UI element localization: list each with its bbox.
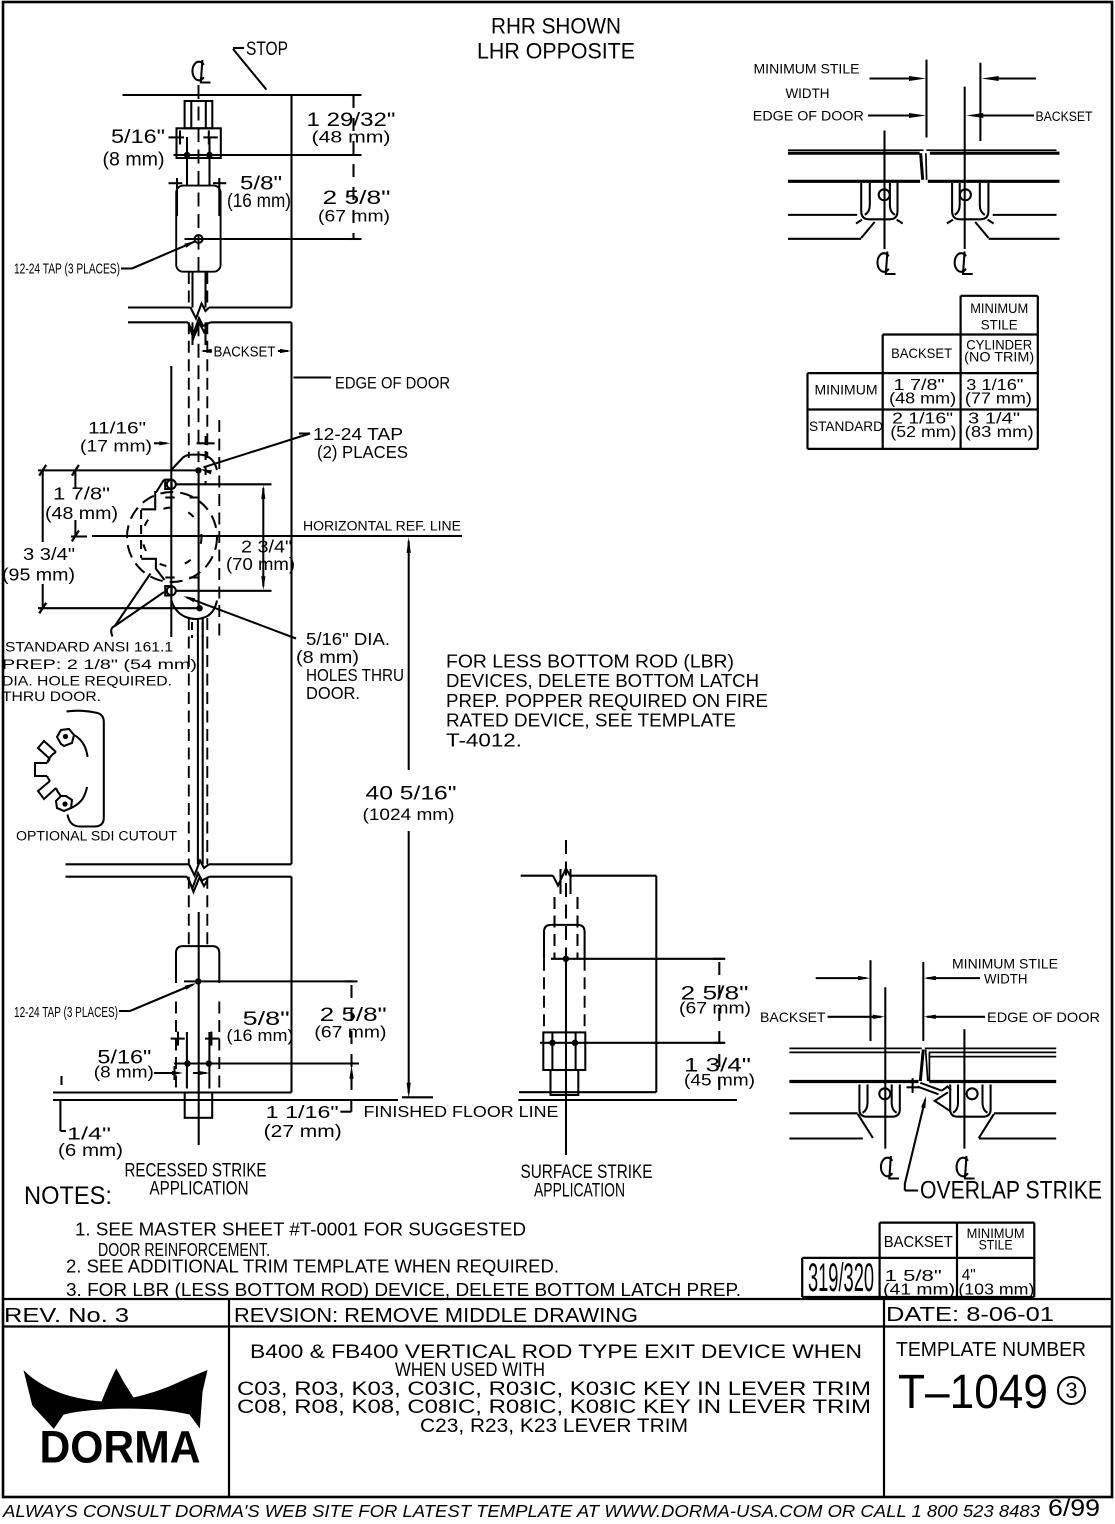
svg-text:OVERLAP STRIKE: OVERLAP STRIKE xyxy=(920,1177,1102,1205)
svg-text:(2) PLACES: (2) PLACES xyxy=(317,442,408,462)
svg-text:(48 mm): (48 mm) xyxy=(312,128,391,147)
svg-text:3: 3 xyxy=(1065,1378,1077,1403)
svg-text:(8 mm): (8 mm) xyxy=(94,1063,154,1082)
svg-text:MINIMUM STILE: MINIMUM STILE xyxy=(754,62,860,77)
svg-text:DOOR.: DOOR. xyxy=(306,683,360,703)
svg-text:12-24 TAP: 12-24 TAP xyxy=(313,424,403,444)
svg-text:DIA. HOLE REQUIRED.: DIA. HOLE REQUIRED. xyxy=(2,673,172,689)
svg-text:DATE: 8-06-01: DATE: 8-06-01 xyxy=(886,1304,1054,1326)
svg-text:OPTIONAL SDI CUTOUT: OPTIONAL SDI CUTOUT xyxy=(16,829,177,844)
svg-text:BACKSET: BACKSET xyxy=(884,1234,953,1251)
svg-text:C23, R23, K23 LEVER TRIM: C23, R23, K23 LEVER TRIM xyxy=(420,1416,688,1437)
svg-text:HOLES THRU: HOLES THRU xyxy=(306,665,404,685)
svg-text:(103 mm): (103 mm) xyxy=(958,1282,1034,1299)
svg-text:RATED DEVICE, SEE TEMPLATE: RATED DEVICE, SEE TEMPLATE xyxy=(446,710,736,731)
svg-text:REV. No. 3: REV. No. 3 xyxy=(4,1305,129,1327)
svg-text:WIDTH: WIDTH xyxy=(984,971,1028,987)
svg-text:RHR SHOWN: RHR SHOWN xyxy=(491,14,621,39)
svg-text:ALWAYS CONSULT DORMA'S WEB SIT: ALWAYS CONSULT DORMA'S WEB SITE FOR LATE… xyxy=(2,1501,1041,1521)
svg-text:STOP: STOP xyxy=(246,39,288,60)
svg-text:(52 mm): (52 mm) xyxy=(890,424,956,441)
svg-text:THRU DOOR.: THRU DOOR. xyxy=(2,688,101,704)
svg-text:(16 mm): (16 mm) xyxy=(227,191,291,212)
svg-text:12-24 TAP (3 PLACES): 12-24 TAP (3 PLACES) xyxy=(14,1004,118,1021)
svg-text:TEMPLATE NUMBER: TEMPLATE NUMBER xyxy=(896,1339,1086,1361)
svg-text:WHEN USED WITH: WHEN USED WITH xyxy=(395,1360,545,1381)
svg-text:DEVICES, DELETE BOTTOM LATCH: DEVICES, DELETE BOTTOM LATCH xyxy=(446,670,759,691)
svg-text:APPLICATION: APPLICATION xyxy=(150,1179,249,1200)
svg-text:B400 & FB400 VERTICAL ROD TYPE: B400 & FB400 VERTICAL ROD TYPE EXIT DEVI… xyxy=(250,1342,862,1363)
svg-text:5/16": 5/16" xyxy=(111,127,165,148)
svg-text:MINIMUM: MINIMUM xyxy=(815,382,878,398)
svg-text:(16 mm): (16 mm) xyxy=(227,1026,294,1045)
svg-text:MINIMUM: MINIMUM xyxy=(970,300,1028,316)
svg-text:(6 mm): (6 mm) xyxy=(58,1140,123,1160)
svg-text:BACKSET: BACKSET xyxy=(214,344,276,361)
svg-text:FINISHED FLOOR LINE: FINISHED FLOOR LINE xyxy=(364,1104,559,1121)
svg-text:11/16": 11/16" xyxy=(88,419,146,438)
svg-text:STILE: STILE xyxy=(981,317,1018,333)
svg-text:(95 mm): (95 mm) xyxy=(2,565,75,585)
svg-text:C08, R08, K08, C08IC, R08IC, K: C08, R08, K08, C08IC, R08IC, K08IC KEY I… xyxy=(237,1397,871,1418)
svg-text:(77 mm): (77 mm) xyxy=(965,391,1032,408)
svg-text:STANDARD ANSI 161.1: STANDARD ANSI 161.1 xyxy=(5,639,173,655)
svg-text:(27 mm): (27 mm) xyxy=(264,1121,342,1141)
svg-text:FOR LESS BOTTOM ROD (LBR): FOR LESS BOTTOM ROD (LBR) xyxy=(446,651,734,672)
svg-text:1 1/16": 1 1/16" xyxy=(266,1102,339,1122)
svg-text:LHR OPPOSITE: LHR OPPOSITE xyxy=(477,39,635,64)
svg-text:1 7/8": 1 7/8" xyxy=(53,484,110,504)
svg-text:(67 mm): (67 mm) xyxy=(318,207,390,226)
svg-text:DORMA: DORMA xyxy=(40,1422,201,1473)
svg-text:HORIZONTAL REF. LINE: HORIZONTAL REF. LINE xyxy=(303,519,461,534)
svg-text:(83 mm): (83 mm) xyxy=(965,424,1034,441)
svg-text:(8 mm): (8 mm) xyxy=(103,150,165,171)
svg-text:3 3/4": 3 3/4" xyxy=(23,544,75,564)
svg-text:5/16" DIA.: 5/16" DIA. xyxy=(306,629,390,649)
svg-text:3. FOR LBR (LESS BOTTOM ROD) D: 3. FOR LBR (LESS BOTTOM ROD) DEVICE, DEL… xyxy=(66,1279,741,1300)
svg-text:STILE: STILE xyxy=(979,1237,1013,1253)
svg-text:(67 mm): (67 mm) xyxy=(314,1023,386,1042)
svg-text:2. SEE ADDITIONAL TRIM TEMPLAT: 2. SEE ADDITIONAL TRIM TEMPLATE WHEN REQ… xyxy=(66,1256,559,1277)
svg-text:40 5/16": 40 5/16" xyxy=(366,784,457,805)
svg-text:(48 mm): (48 mm) xyxy=(889,391,956,408)
svg-text:T-4012.: T-4012. xyxy=(446,729,522,750)
svg-text:(67 mm): (67 mm) xyxy=(679,999,751,1018)
svg-text:BACKSET: BACKSET xyxy=(891,345,952,361)
svg-text:BACKSET: BACKSET xyxy=(760,1009,826,1025)
svg-text:(8 mm): (8 mm) xyxy=(296,647,359,667)
svg-text:(70 mm): (70 mm) xyxy=(226,554,295,574)
svg-text:STANDARD: STANDARD xyxy=(809,418,883,434)
svg-text:PREP. POPPER REQUIRED ON FIRE: PREP. POPPER REQUIRED ON FIRE xyxy=(446,690,768,711)
svg-text:(1024 mm): (1024 mm) xyxy=(363,805,455,824)
svg-text:(NO TRIM): (NO TRIM) xyxy=(964,349,1034,365)
svg-text:APPLICATION: APPLICATION xyxy=(534,1181,625,1202)
svg-text:WIDTH: WIDTH xyxy=(786,86,830,101)
svg-text:EDGE OF DOOR: EDGE OF DOOR xyxy=(335,374,450,393)
svg-text:1. SEE MASTER SHEET #T-0001 FO: 1. SEE MASTER SHEET #T-0001 FOR SUGGESTE… xyxy=(75,1219,526,1240)
svg-text:BACKSET: BACKSET xyxy=(1036,109,1093,124)
svg-text:(48 mm): (48 mm) xyxy=(45,503,118,523)
svg-text:EDGE OF DOOR: EDGE OF DOOR xyxy=(753,109,864,124)
svg-text:(45 mm): (45 mm) xyxy=(684,1071,755,1090)
svg-text:6/99: 6/99 xyxy=(1048,1495,1100,1522)
svg-text:REVSION: REMOVE MIDDLE DRAWIN: REVSION: REMOVE MIDDLE DRAWING xyxy=(234,1305,638,1327)
svg-text:T–1049: T–1049 xyxy=(898,1366,1048,1419)
svg-text:(41 mm): (41 mm) xyxy=(883,1282,955,1299)
svg-text:EDGE OF DOOR: EDGE OF DOOR xyxy=(987,1009,1100,1025)
svg-text:319/320: 319/320 xyxy=(808,1256,874,1300)
svg-text:PREP: 2 1/8" (54 mm): PREP: 2 1/8" (54 mm) xyxy=(2,656,197,672)
svg-text:12-24 TAP (3 PLACES): 12-24 TAP (3 PLACES) xyxy=(14,261,120,278)
svg-text:MINIMUM STILE: MINIMUM STILE xyxy=(952,956,1058,972)
svg-text:(17 mm): (17 mm) xyxy=(80,437,152,456)
svg-text:NOTES:: NOTES: xyxy=(24,1182,112,1210)
